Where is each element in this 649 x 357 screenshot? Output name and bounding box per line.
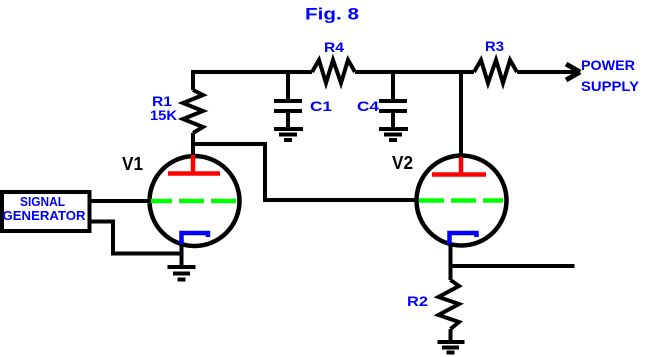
svg-text:SUPPLY: SUPPLY	[581, 78, 640, 94]
plate V2 (red)	[432, 157, 486, 176]
svg-text:R4: R4	[324, 39, 344, 55]
grid V2 (green dashed)	[419, 198, 503, 203]
wire top rail left segment with corner down to R1	[193, 72, 312, 90]
wire signal generator to V1 grid	[90, 199, 151, 203]
ground under C4	[379, 129, 408, 140]
ground under C1	[274, 129, 303, 140]
cathode V2 (blue)	[450, 233, 477, 245]
svg-text:C4: C4	[357, 98, 379, 114]
svg-text:SIGNAL: SIGNAL	[20, 194, 65, 209]
wire R1 bottom to V1 plate	[191, 133, 195, 157]
svg-text:15K: 15K	[150, 107, 177, 123]
signal generator box	[2, 192, 90, 231]
ground under R2	[438, 342, 465, 353]
plate V1 (red)	[168, 155, 220, 175]
wire signal generator bottom to cathode ground	[90, 222, 182, 254]
svg-text:GENERATOR: GENERATOR	[3, 208, 87, 223]
svg-text:C1: C1	[310, 98, 332, 114]
svg-text:R2: R2	[407, 293, 428, 309]
capacitor C4 wire from rail	[391, 72, 395, 101]
wire top rail middle segment	[355, 70, 474, 74]
svg-text:Fig. 8: Fig. 8	[305, 5, 359, 24]
wire coupling V1 plate to V2 grid	[193, 144, 418, 200]
wire R2 bottom to ground	[449, 329, 453, 342]
ground under V1 cathode	[168, 267, 196, 280]
wire V2 cathode down	[449, 244, 453, 280]
wire to power supply	[517, 70, 577, 74]
resistor R1	[183, 90, 203, 133]
svg-text:R3: R3	[485, 38, 504, 54]
tube V2 envelope	[417, 156, 507, 246]
grid V1 (green dashed)	[147, 199, 237, 204]
arrowhead power supply	[566, 64, 580, 80]
svg-text:V2: V2	[392, 153, 413, 173]
tube V1 envelope	[150, 156, 240, 246]
capacitor C1	[274, 101, 302, 129]
resistor R4	[312, 60, 355, 83]
cathode V1 (blue)	[182, 233, 209, 245]
capacitor C1 wire from rail	[286, 72, 290, 101]
resistor R3	[474, 60, 517, 83]
resistor R2	[439, 280, 460, 329]
wire V1 cathode to ground	[180, 244, 184, 267]
wire output tap to the right	[451, 264, 575, 268]
wire rail to V2 plate	[459, 72, 463, 158]
svg-text:V1: V1	[122, 154, 143, 174]
svg-text:POWER: POWER	[581, 57, 635, 73]
capacitor C4	[379, 101, 407, 129]
